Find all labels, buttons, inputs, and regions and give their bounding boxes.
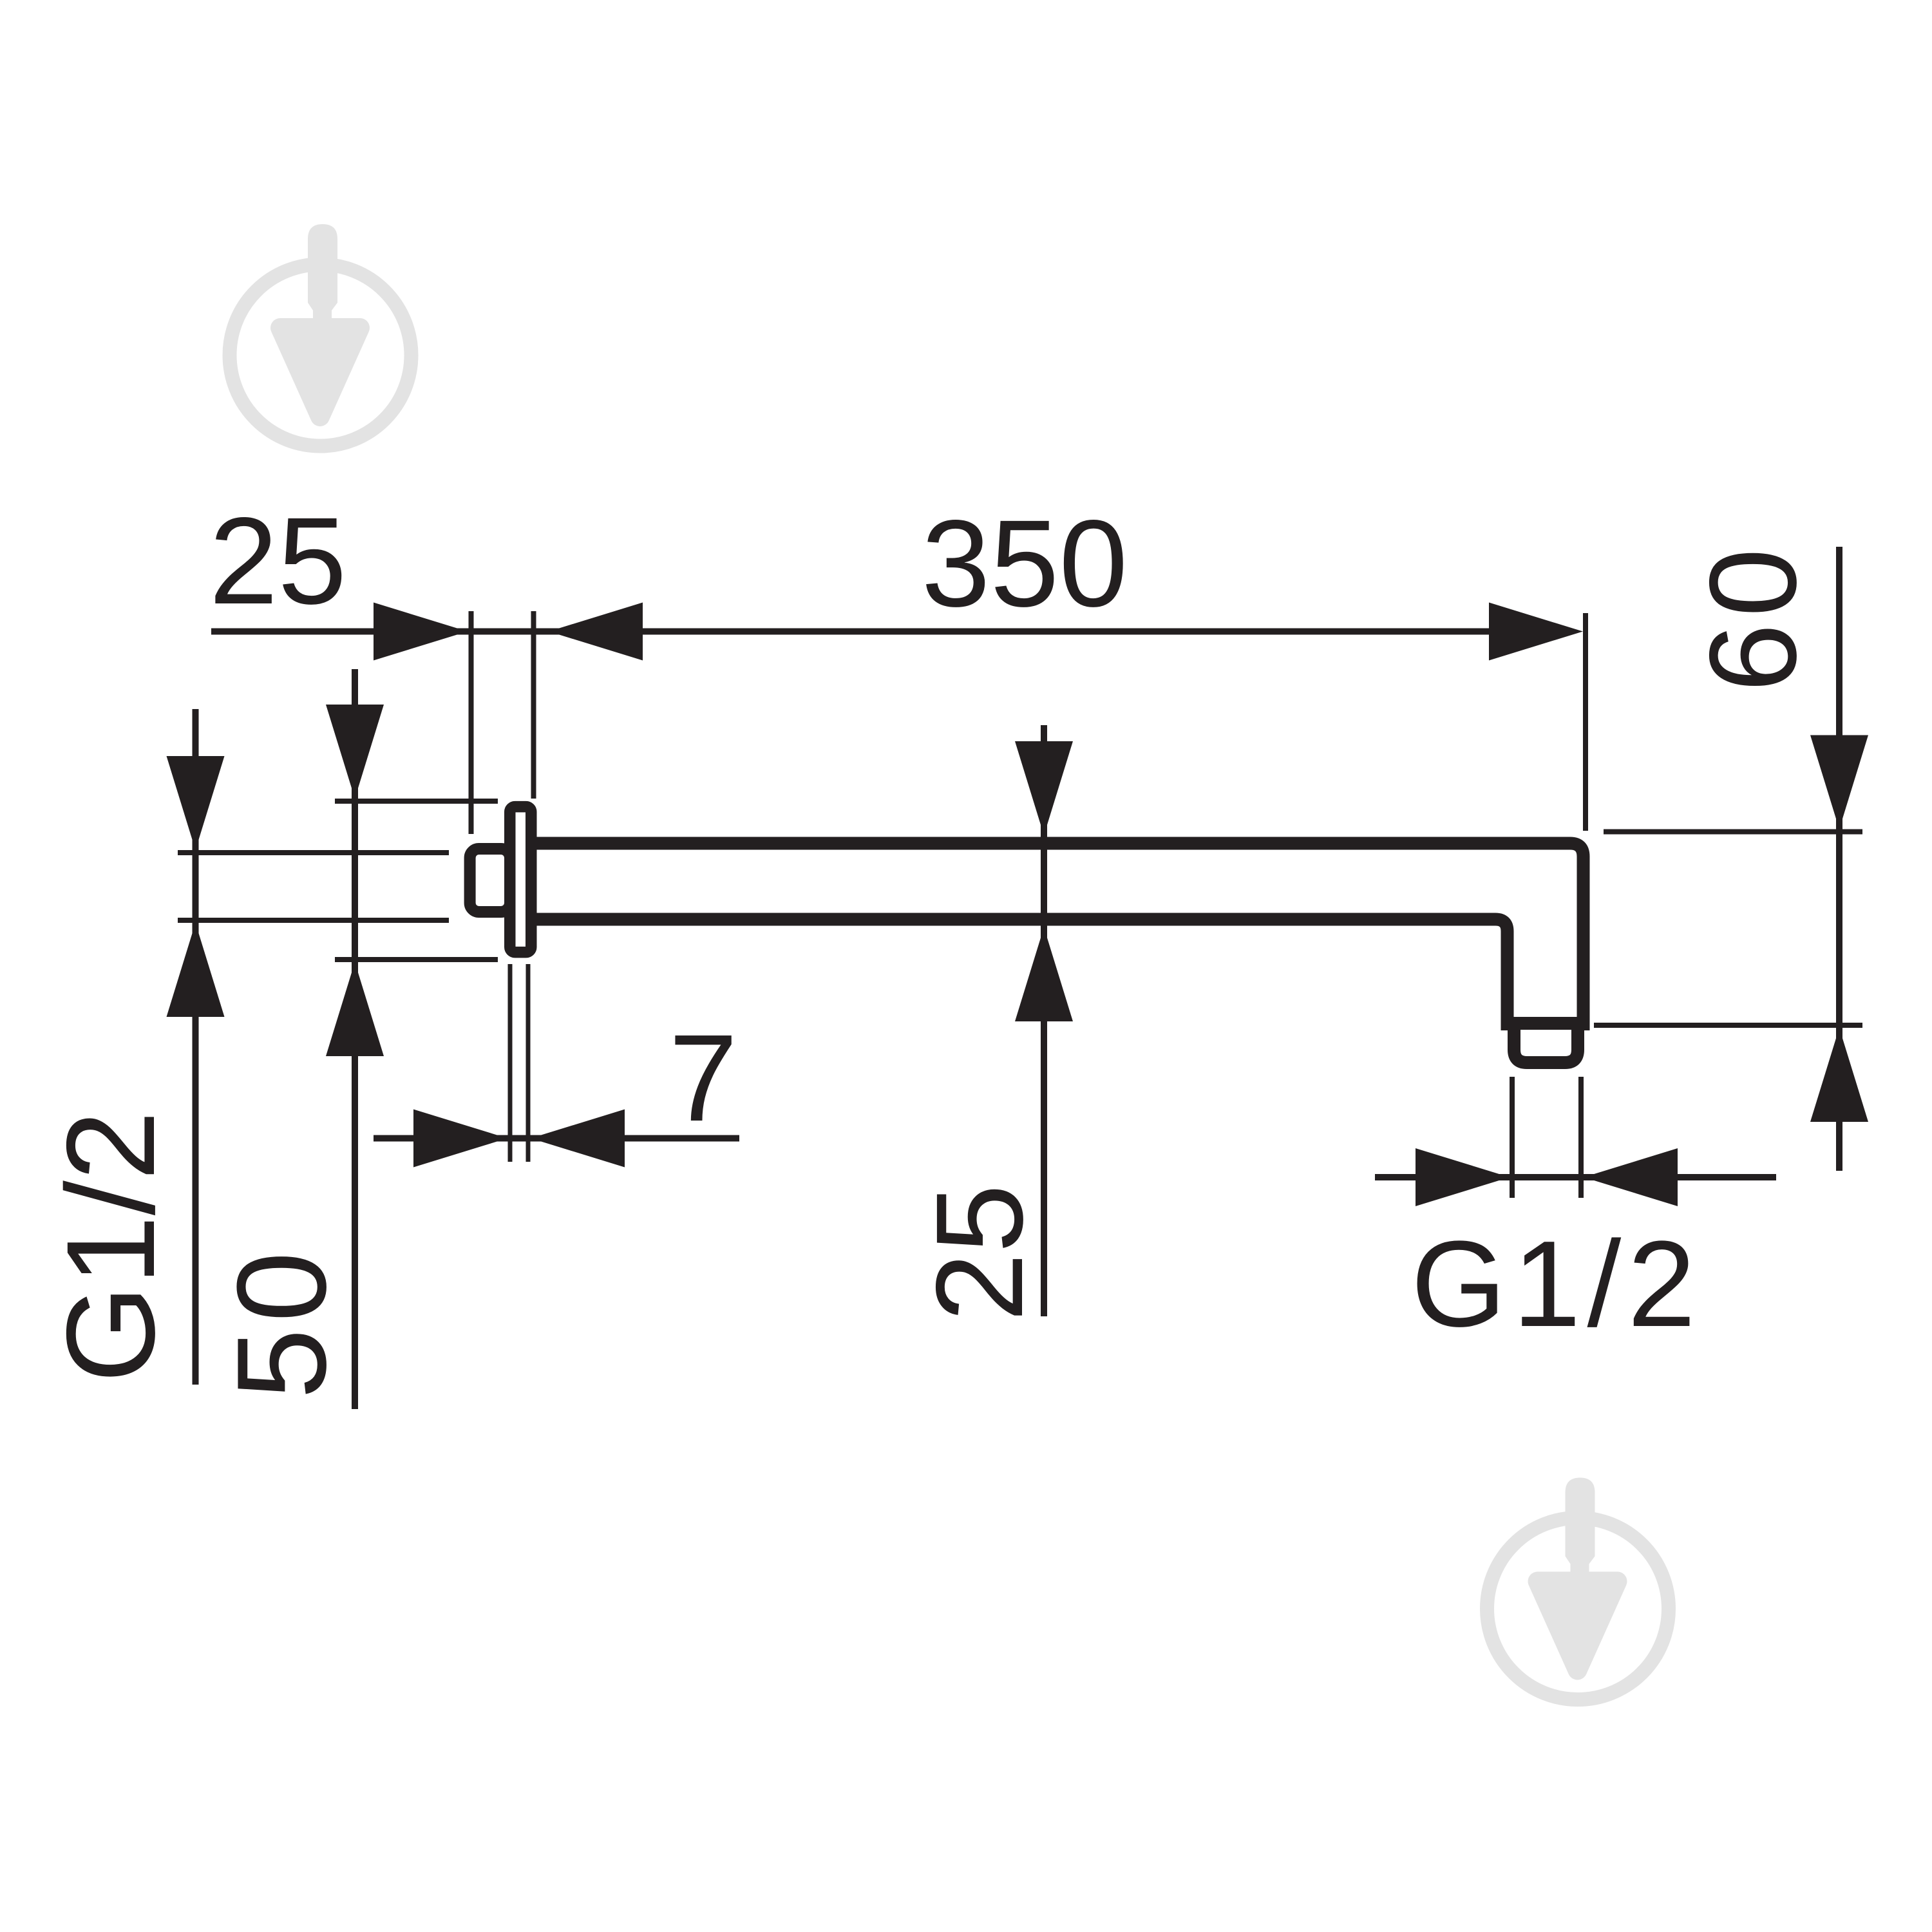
dim 25 middle vertical — [1041, 725, 1047, 1316]
extension line B (G1/2 left bottom) — [178, 918, 449, 923]
extension line H2 (60 bottom) — [1594, 1023, 1862, 1028]
svg-text:60: 60 — [1683, 542, 1822, 692]
dim G1/2 bottom horizontal — [1375, 1174, 1776, 1180]
dim 7 horizontal — [374, 1135, 739, 1142]
extension line 7a (flange thickness left) — [508, 964, 513, 1162]
svg-text:25: 25 — [910, 1184, 1048, 1322]
shower arm: wall thread peg — [470, 849, 510, 912]
extension line 7b (flange thickness right) — [526, 964, 531, 1162]
extension line Ta (bottom thread left) — [1510, 1077, 1515, 1198]
extension line A (G1/2 left top) — [178, 850, 449, 855]
dim line 25 top — [211, 629, 1492, 635]
extension line D (50 bottom) — [335, 957, 498, 962]
dim 50 vertical — [352, 669, 358, 1409]
svg-text:50: 50 — [211, 1245, 352, 1399]
svg-text:7: 7 — [669, 1009, 738, 1147]
svg-text:350: 350 — [922, 494, 1128, 632]
shower arm: elbow step line — [1509, 1017, 1584, 1030]
shower arm: thread collar — [1514, 1023, 1578, 1063]
extension line V3 (350 right end) — [1583, 613, 1588, 831]
svg-text:G1/2: G1/2 — [41, 1111, 181, 1383]
shower arm: bottom edge and elbow inner edge — [529, 920, 1508, 1031]
extension line H1 (60 top) — [1604, 829, 1862, 835]
svg-text:G1/2: G1/2 — [1411, 1216, 1702, 1352]
dim G1/2 left vertical — [193, 709, 199, 1385]
extension line V2 (25 offset right) — [531, 611, 536, 799]
watermark logo bottom-right — [1487, 1478, 1669, 1700]
dim 60 vertical — [1836, 547, 1842, 1171]
extension line V1 (25 offset left) — [469, 611, 474, 834]
shower arm: wall flange plate — [510, 807, 531, 952]
watermark logo top-left — [230, 224, 412, 446]
shower arm: top edge and right elbow outer edge — [529, 844, 1584, 1031]
dim line 350 — [549, 603, 643, 661]
extension line Tb (bottom thread right) — [1578, 1077, 1584, 1198]
extension line C (50 top) — [335, 799, 498, 804]
svg-text:25: 25 — [209, 491, 347, 630]
